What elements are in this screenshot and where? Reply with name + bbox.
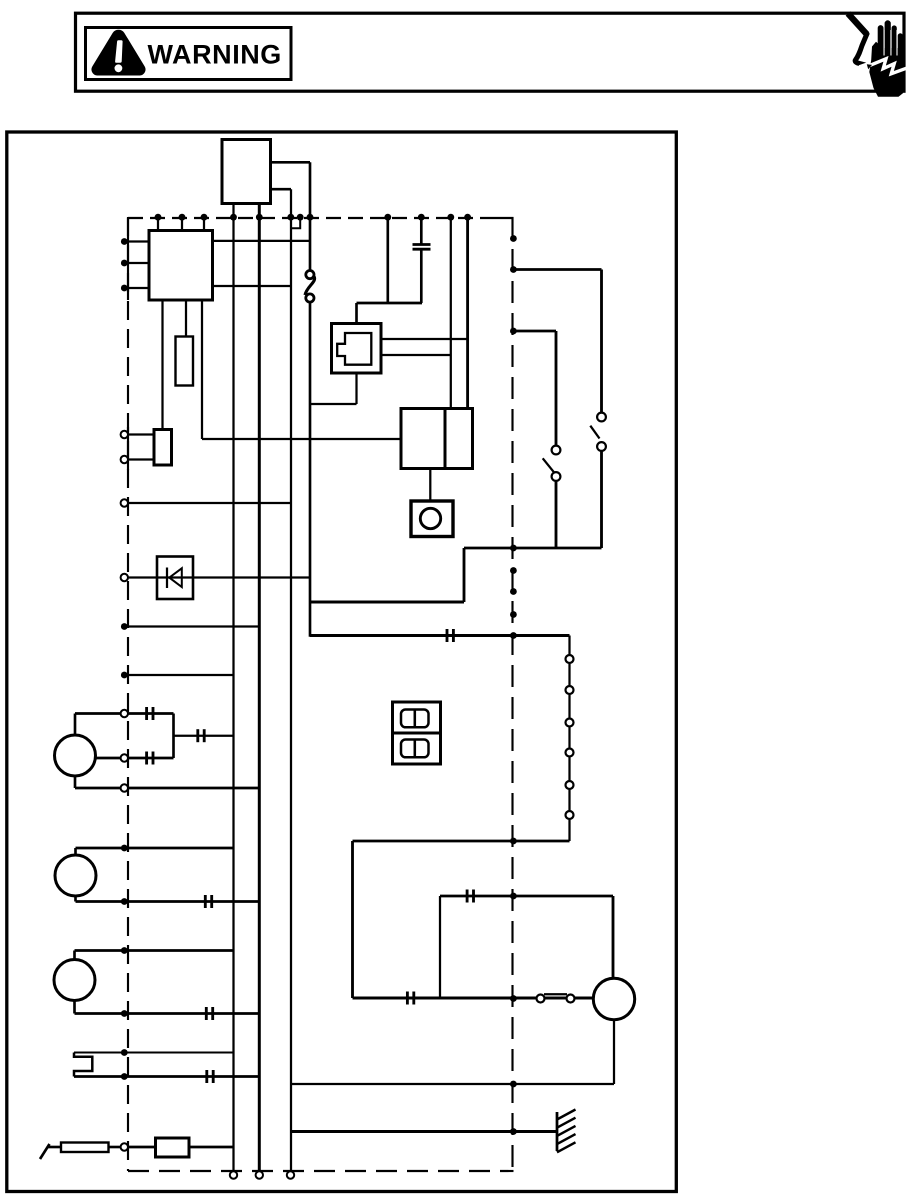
svg-text:WARNING: WARNING <box>148 40 282 70</box>
